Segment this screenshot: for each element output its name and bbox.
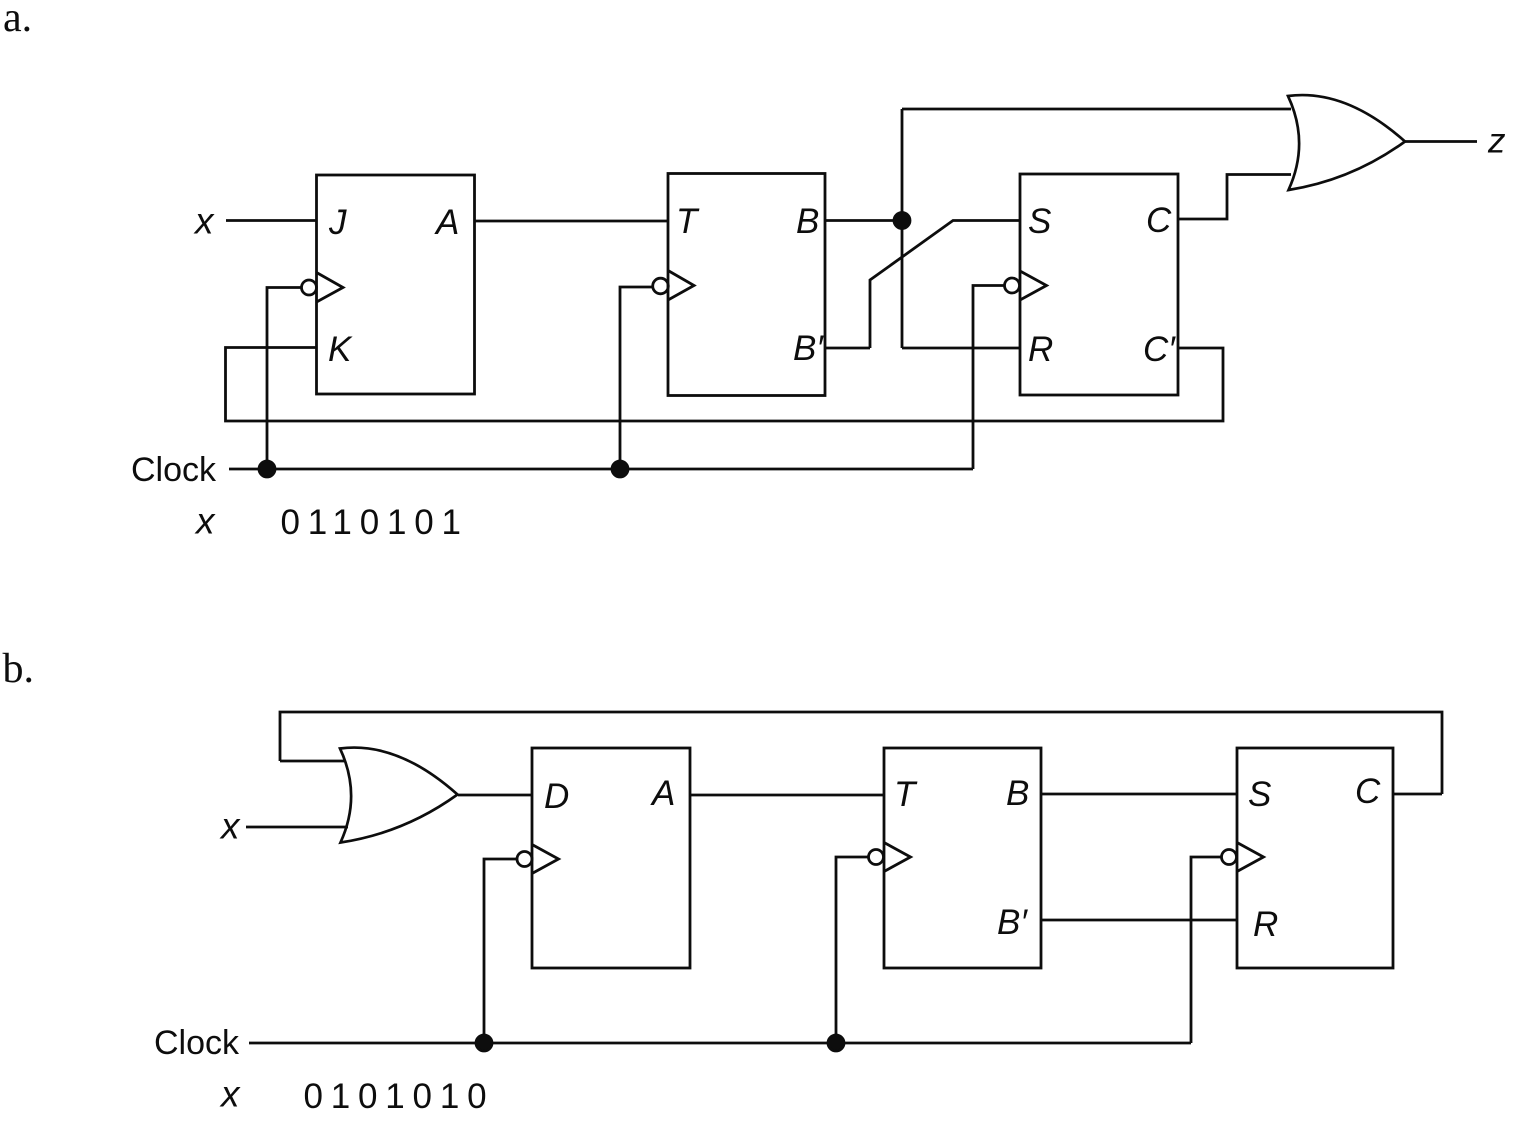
wire clock riser U6 <box>1191 857 1221 1043</box>
svg-text:x: x <box>193 201 215 242</box>
flip-flop U2 (T) box <box>668 174 825 396</box>
svg-text:Clock: Clock <box>131 451 217 489</box>
svg-text:K: K <box>328 330 353 369</box>
wire feedback into OR gate b <box>280 760 346 763</box>
flip-flop U6 (SR) box <box>1237 748 1393 968</box>
svg-text:A: A <box>434 203 459 242</box>
wire B' to R <box>1041 919 1237 922</box>
flip-flop U1 (JK) box <box>317 175 475 394</box>
wire OR output to D <box>458 794 532 797</box>
svg-text:x: x <box>219 806 241 847</box>
svg-text:0101010: 0101010 <box>304 1077 495 1116</box>
wire clock drop U5 <box>836 857 868 1043</box>
svg-text:x: x <box>219 1074 241 1115</box>
wire feedback top line b <box>280 712 1442 794</box>
clock edge triangle U3 <box>1005 278 1020 293</box>
wire A output to T input <box>475 220 669 223</box>
junction clock dot 2 <box>612 461 628 477</box>
clock edge triangle U2 <box>653 278 669 294</box>
wire node B vertical (up to OR, down to R) <box>901 109 904 348</box>
clock wire b <box>249 1042 1191 1045</box>
clock edge triangle U6 <box>1222 850 1237 865</box>
junction node B dot <box>894 213 910 229</box>
svg-text:Clock: Clock <box>154 1024 240 1062</box>
junction clock dot 3 <box>476 1035 492 1051</box>
clock bubble U1 <box>302 280 317 295</box>
wire clock drop U2 <box>620 287 653 469</box>
svg-text:C: C <box>1355 772 1381 811</box>
svg-text:S: S <box>1248 775 1271 814</box>
svg-text:D: D <box>544 777 569 816</box>
svg-text:C′: C′ <box>1143 330 1176 369</box>
svg-text:B′: B′ <box>997 903 1028 942</box>
svg-text:B: B <box>1006 774 1029 813</box>
svg-text:T: T <box>676 202 700 241</box>
wire B output to node <box>825 219 902 222</box>
flip-flop U3 (SR) box <box>1020 174 1178 395</box>
wire B' diagonal crossover to S <box>870 221 1020 349</box>
wire C output to OR gate input 2 <box>1178 175 1291 220</box>
svg-text:z: z <box>1487 122 1506 161</box>
clock edge triangle U4 <box>517 852 532 867</box>
wire clock drop U1 <box>267 288 301 470</box>
svg-text:A: A <box>650 774 675 813</box>
svg-text:C: C <box>1146 201 1172 240</box>
OR gate G2 <box>340 748 458 843</box>
junction clock dot 4 <box>828 1035 844 1051</box>
wire C output up to feedback <box>1393 793 1442 796</box>
svg-text:B′: B′ <box>793 329 824 368</box>
wire clock riser U3 <box>973 286 1004 470</box>
svg-text:0110101: 0110101 <box>281 503 469 542</box>
wire A to T <box>690 794 884 797</box>
wire B to S <box>1041 793 1237 796</box>
wire B' output <box>825 347 870 350</box>
wire top line to OR gate input 1 <box>902 108 1291 111</box>
wire x input to J <box>226 219 317 222</box>
svg-text:x: x <box>194 501 216 542</box>
wire x input b <box>246 826 348 829</box>
clock edge triangle U5 <box>869 850 884 865</box>
flip-flop U5 (T) box <box>884 748 1041 968</box>
svg-text:B: B <box>796 202 819 241</box>
clock edge triangle U1 <box>317 273 344 303</box>
svg-text:R: R <box>1253 905 1278 944</box>
clock wire a <box>229 468 973 471</box>
wire node B to R input <box>902 347 1020 350</box>
svg-text:b.: b. <box>3 646 35 692</box>
wire clock drop U4 <box>484 859 517 1043</box>
svg-text:T: T <box>894 775 918 814</box>
junction clock dot 1 <box>259 461 275 477</box>
svg-text:R: R <box>1028 330 1053 369</box>
svg-text:J: J <box>328 203 347 242</box>
wire OR output to z <box>1405 140 1477 143</box>
flip-flop U4 (D) box <box>532 748 690 968</box>
OR gate G1 <box>1288 95 1405 190</box>
svg-text:S: S <box>1028 202 1051 241</box>
wire C' feedback to K input <box>226 348 1224 422</box>
svg-text:a.: a. <box>3 0 32 41</box>
